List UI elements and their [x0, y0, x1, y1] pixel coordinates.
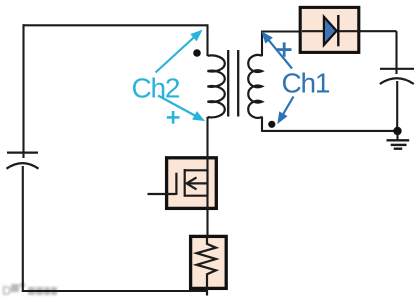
gate bar: [175, 173, 177, 195]
arrow Ch2 to primary top: [156, 32, 201, 73]
junction node: [393, 127, 401, 135]
drain horizontal: [185, 169, 209, 171]
plus (Ch2 side): [167, 111, 180, 124]
wire: bottom horizontal (secondary loop): [262, 130, 398, 132]
transformer T1 secondary winding: [248, 55, 262, 118]
transformer T1 core: [227, 50, 229, 117]
wire: primary rail top (corner to winding): [206, 25, 208, 56]
arrow Ch2 to primary bottom: [158, 96, 203, 120]
wire: secondary top (winding to corner to diode): [262, 32, 300, 57]
capacitor C1 (left, straight + curved plate): [7, 153, 39, 169]
wire: C2 to ground junction: [396, 81, 398, 131]
wire: secondary bottom vertical: [261, 117, 263, 132]
bulk arrowhead: [187, 177, 197, 189]
wire: left vertical upper (to capacitor C1): [22, 24, 24, 158]
source horizontal: [185, 195, 209, 197]
wire: source to resistor: [206, 196, 208, 238]
transformer T1 primary winding: [208, 55, 225, 117]
MOSFET Q1 symbol: [148, 169, 209, 197]
wire: left vertical lower (C1 to bottom rail): [22, 166, 24, 292]
plus (Ch1 side): [277, 42, 292, 56]
resistor R1 box: [191, 236, 227, 288]
wire: right vertical (diode to capacitor C2): [395, 31, 397, 74]
wire through diode box: [302, 30, 397, 32]
polarity dot (primary): [193, 49, 201, 57]
MOSFET Q1 box: [167, 158, 217, 209]
svg-text:D: D: [2, 283, 11, 298]
watermark (blurred gray logo bottom-left): [2, 283, 57, 298]
diode D1 symbol: [324, 17, 337, 45]
wire: primary rail through MOSFET (winding bottom to drain bar): [206, 117, 208, 172]
polarity dot (secondary): [268, 121, 275, 128]
wire: top horizontal (input loop): [23, 24, 209, 26]
svg-text:Ch2: Ch2: [132, 73, 180, 104]
wire: bottom horizontal rail: [22, 290, 208, 292]
bulk arrow line: [188, 182, 208, 184]
ground: [387, 131, 410, 149]
arrow Ch1 to secondary bottom dot: [279, 97, 294, 122]
channel bar: [184, 169, 186, 197]
arrow Ch1 to secondary top corner: [263, 34, 292, 69]
resistor R1 zigzag: [197, 238, 216, 296]
diode D1 box: [300, 7, 359, 52]
inner vertical: [206, 170, 208, 195]
svg-text:Ch1: Ch1: [282, 67, 330, 98]
capacitor C2 (right, straight + curved plate): [380, 69, 414, 84]
gate lead: [148, 193, 177, 195]
